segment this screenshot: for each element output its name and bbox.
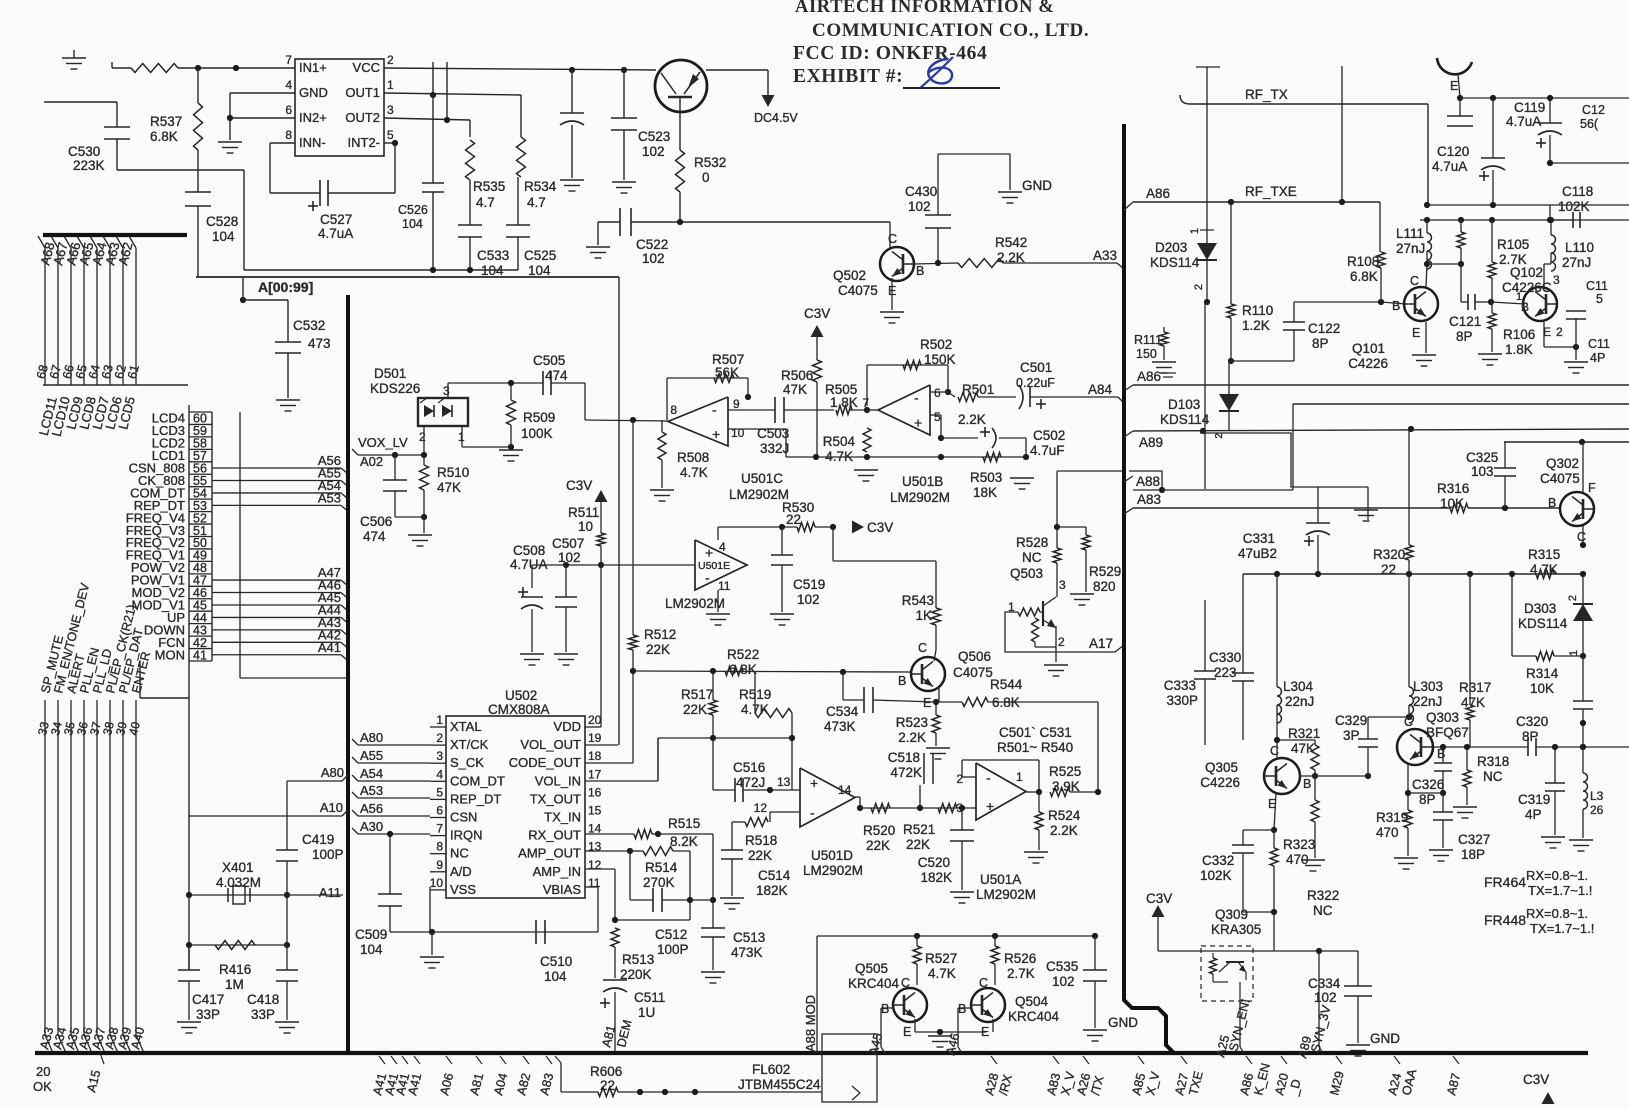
svg-text:LM2902M: LM2902M — [665, 596, 725, 611]
svg-text:R508: R508 — [677, 450, 709, 465]
svg-text:INN-: INN- — [299, 135, 326, 150]
svg-text:9: 9 — [733, 397, 740, 411]
svg-text:U501B: U501B — [902, 474, 943, 489]
svg-text:4.7K: 4.7K — [928, 966, 956, 981]
svg-text:6.8K: 6.8K — [1350, 269, 1378, 284]
svg-text:A53: A53 — [318, 490, 341, 505]
svg-text:14: 14 — [838, 783, 852, 797]
svg-text:8P: 8P — [1522, 729, 1539, 744]
svg-text:4.7: 4.7 — [527, 195, 546, 210]
svg-text:19: 19 — [588, 731, 602, 745]
svg-text:C: C — [901, 976, 910, 990]
svg-text:KDS114: KDS114 — [1518, 616, 1568, 631]
svg-text:4.7K: 4.7K — [680, 465, 708, 480]
svg-text:102K: 102K — [1558, 199, 1590, 214]
svg-text:12: 12 — [754, 801, 768, 815]
svg-text:8: 8 — [436, 840, 443, 854]
svg-text:100P: 100P — [657, 942, 689, 957]
svg-text:102: 102 — [642, 251, 665, 266]
svg-text:1: 1 — [436, 713, 443, 727]
svg-text:C120: C120 — [1437, 144, 1469, 159]
svg-text:102: 102 — [558, 550, 581, 565]
svg-text:U501D: U501D — [811, 848, 853, 863]
svg-text:A53: A53 — [360, 783, 383, 798]
svg-text:470: 470 — [1286, 852, 1309, 867]
svg-text:474: 474 — [545, 368, 568, 383]
svg-text:4.7K: 4.7K — [825, 449, 853, 464]
svg-text:C3V: C3V — [1146, 891, 1172, 906]
svg-text:R529: R529 — [1089, 564, 1121, 579]
svg-text:C3V: C3V — [566, 478, 592, 493]
svg-text:A89: A89 — [1139, 435, 1163, 450]
svg-text:E: E — [1450, 79, 1458, 93]
svg-text:RX_OUT: RX_OUT — [528, 828, 581, 843]
svg-text:16: 16 — [588, 785, 602, 799]
svg-text:C: C — [1577, 530, 1586, 544]
svg-text:-: - — [810, 804, 815, 820]
svg-text:E: E — [1412, 326, 1420, 340]
svg-text:A86: A86 — [1146, 186, 1170, 201]
svg-text:C532: C532 — [293, 318, 325, 333]
svg-text:C331: C331 — [1243, 531, 1275, 546]
svg-text:C535: C535 — [1046, 959, 1078, 974]
svg-text:C520: C520 — [918, 855, 950, 870]
svg-text:Q302: Q302 — [1546, 456, 1579, 471]
svg-text:C121: C121 — [1449, 314, 1481, 329]
svg-text:R521: R521 — [903, 822, 935, 837]
svg-text:AIRTECH INFORMATION &: AIRTECH INFORMATION & — [795, 0, 1054, 17]
svg-text:C522: C522 — [636, 237, 668, 252]
svg-text:EXHIBIT #:: EXHIBIT #: — [793, 66, 903, 87]
svg-text:C530: C530 — [68, 144, 100, 159]
svg-text:C527: C527 — [320, 212, 352, 227]
svg-text:47K: 47K — [1461, 695, 1485, 710]
svg-text:22K: 22K — [906, 837, 930, 852]
svg-text:R522: R522 — [727, 647, 759, 662]
svg-text:LM2902M: LM2902M — [729, 487, 789, 502]
svg-text:D103: D103 — [1168, 397, 1200, 412]
svg-text:104: 104 — [402, 217, 423, 231]
svg-text:GND: GND — [299, 85, 328, 100]
svg-text:C11: C11 — [1586, 279, 1608, 293]
svg-text:A10: A10 — [320, 800, 343, 815]
svg-text:R528: R528 — [1016, 535, 1048, 550]
svg-text:C333: C333 — [1164, 678, 1196, 693]
svg-text:8P: 8P — [1419, 792, 1436, 807]
svg-text:10: 10 — [430, 876, 444, 890]
svg-text:C12: C12 — [1582, 103, 1605, 117]
svg-text:C513: C513 — [733, 930, 765, 945]
svg-text:C533: C533 — [477, 248, 509, 263]
svg-text:VCC: VCC — [353, 60, 380, 75]
svg-text:R504: R504 — [823, 434, 856, 449]
svg-text:103: 103 — [1471, 464, 1494, 479]
svg-text:C514: C514 — [758, 868, 791, 883]
svg-text:A02: A02 — [360, 454, 383, 469]
svg-text:102: 102 — [797, 592, 820, 607]
svg-text:R315: R315 — [1528, 547, 1560, 562]
svg-text:-: - — [986, 769, 991, 785]
svg-text:A80: A80 — [360, 730, 383, 745]
svg-text:C512: C512 — [655, 927, 687, 942]
svg-text:VOX_LV: VOX_LV — [358, 435, 408, 450]
svg-text:Q502: Q502 — [833, 268, 866, 283]
svg-text:REP_DT: REP_DT — [450, 791, 501, 806]
svg-text:C519: C519 — [793, 577, 825, 592]
svg-text:BFQ67: BFQ67 — [1426, 725, 1469, 740]
svg-text:R535: R535 — [473, 179, 505, 194]
svg-text:3P: 3P — [1343, 728, 1360, 743]
svg-text:C327: C327 — [1458, 832, 1490, 847]
svg-text:L304: L304 — [1283, 679, 1314, 694]
svg-text:C501` C531: C501` C531 — [999, 725, 1072, 740]
svg-text:COM_DT: COM_DT — [450, 773, 505, 788]
svg-text:47K: 47K — [437, 480, 461, 495]
svg-text:OK: OK — [33, 1079, 52, 1094]
svg-text:47uB2: 47uB2 — [1238, 546, 1277, 561]
svg-text:C11: C11 — [1588, 337, 1610, 351]
svg-text:KDS226: KDS226 — [370, 381, 420, 396]
svg-text:R534: R534 — [524, 179, 557, 194]
svg-text:4.032M: 4.032M — [216, 875, 261, 890]
svg-text:A/D: A/D — [450, 864, 472, 879]
svg-text:1: 1 — [1016, 770, 1023, 784]
svg-text:R318: R318 — [1477, 754, 1509, 769]
svg-text:472J: 472J — [736, 775, 765, 790]
svg-text:OUT2: OUT2 — [345, 110, 380, 125]
svg-text:8P: 8P — [1312, 336, 1329, 351]
svg-text:F: F — [1588, 481, 1596, 495]
svg-text:3: 3 — [1059, 578, 1066, 592]
svg-text:C326: C326 — [1412, 777, 1444, 792]
svg-text:2.7K: 2.7K — [1007, 966, 1035, 981]
svg-text:C534: C534 — [826, 704, 859, 719]
svg-text:LM2902M: LM2902M — [890, 490, 950, 505]
svg-text:3: 3 — [387, 103, 394, 117]
svg-text:C526: C526 — [398, 203, 428, 217]
svg-text:C: C — [1270, 744, 1279, 758]
svg-text:470: 470 — [1376, 825, 1399, 840]
svg-text:B: B — [916, 264, 924, 278]
svg-text:GND: GND — [1370, 1031, 1400, 1046]
svg-text:17: 17 — [588, 767, 602, 781]
svg-text:KDS114: KDS114 — [1150, 255, 1200, 270]
svg-text:C528: C528 — [206, 214, 238, 229]
svg-text:C525: C525 — [524, 248, 556, 263]
svg-text:U502: U502 — [505, 688, 537, 703]
svg-text:C334: C334 — [1308, 976, 1341, 991]
svg-text:104: 104 — [528, 263, 551, 278]
svg-text:C119: C119 — [1514, 100, 1545, 115]
svg-text:R322: R322 — [1307, 888, 1339, 903]
svg-text:R108: R108 — [1347, 254, 1379, 269]
svg-text:2: 2 — [387, 53, 394, 67]
svg-text:C4226: C4226 — [1348, 356, 1388, 371]
svg-text:D501: D501 — [374, 366, 406, 381]
svg-text:5: 5 — [934, 410, 941, 424]
svg-text:L303: L303 — [1413, 679, 1443, 694]
svg-text:27nJ: 27nJ — [1562, 255, 1591, 270]
svg-text:3: 3 — [436, 749, 443, 763]
svg-text:Q505: Q505 — [855, 961, 888, 976]
svg-text:TX=1.7~1.!: TX=1.7~1.! — [1530, 921, 1594, 936]
svg-text:5: 5 — [1596, 292, 1603, 306]
svg-text:Q102: Q102 — [1510, 265, 1543, 280]
svg-text:COMMUNICATION CO., LTD.: COMMUNICATION CO., LTD. — [812, 20, 1089, 41]
svg-text:R511: R511 — [568, 505, 599, 520]
svg-text:26: 26 — [1590, 803, 1604, 817]
svg-text:FR464: FR464 — [1484, 874, 1526, 890]
svg-text:C508: C508 — [513, 543, 545, 558]
svg-text:C501: C501 — [1020, 360, 1052, 375]
svg-text:22K: 22K — [866, 838, 890, 853]
svg-text:B: B — [881, 1002, 889, 1016]
svg-text:XTAL: XTAL — [450, 719, 482, 734]
svg-text:1U: 1U — [638, 1005, 655, 1020]
svg-text:0.22uF: 0.22uF — [1016, 376, 1055, 390]
svg-text:10K: 10K — [1440, 496, 1464, 511]
svg-text:B: B — [1548, 496, 1556, 510]
svg-text:104: 104 — [212, 229, 235, 244]
svg-text:+: + — [986, 798, 994, 814]
svg-text:102: 102 — [642, 144, 665, 159]
svg-text:C330: C330 — [1209, 650, 1241, 665]
svg-text:C118: C118 — [1562, 184, 1593, 199]
svg-text:104: 104 — [360, 942, 383, 957]
svg-text:GND: GND — [1108, 1015, 1138, 1030]
svg-text:+: + — [914, 415, 922, 431]
svg-text:9: 9 — [436, 858, 443, 872]
svg-text:4.7: 4.7 — [476, 195, 495, 210]
svg-text:R606: R606 — [590, 1064, 622, 1079]
svg-text:R106: R106 — [1503, 327, 1535, 342]
svg-text:330P: 330P — [1166, 693, 1198, 708]
svg-text:18P: 18P — [1461, 847, 1485, 862]
svg-text:R502: R502 — [920, 337, 952, 352]
svg-text:R519: R519 — [739, 687, 771, 702]
svg-text:6.8K: 6.8K — [992, 695, 1020, 710]
svg-text:C3V: C3V — [1523, 1072, 1549, 1087]
svg-text:12: 12 — [588, 858, 602, 872]
svg-text:A88 MOD: A88 MOD — [803, 995, 818, 1052]
svg-text:R518: R518 — [745, 833, 777, 848]
svg-text:S_CK: S_CK — [450, 755, 484, 770]
svg-text:4.7uA: 4.7uA — [318, 226, 353, 241]
svg-text:R509: R509 — [523, 410, 555, 425]
svg-text:E: E — [903, 1025, 911, 1039]
svg-text:4P: 4P — [1590, 351, 1605, 365]
svg-text:820: 820 — [1093, 579, 1116, 594]
svg-text:R544: R544 — [990, 677, 1023, 692]
svg-text:A54: A54 — [360, 766, 383, 781]
svg-text:A80: A80 — [321, 765, 344, 780]
svg-text:6: 6 — [934, 386, 941, 400]
svg-text:A11: A11 — [319, 885, 341, 900]
svg-text:C507: C507 — [552, 536, 584, 551]
svg-text:3.9K: 3.9K — [1052, 779, 1080, 794]
svg-text:Q506: Q506 — [958, 649, 991, 664]
svg-text:OUT1: OUT1 — [345, 85, 380, 100]
svg-text:A41: A41 — [318, 640, 341, 655]
svg-text:IRQN: IRQN — [450, 828, 483, 843]
svg-text:10: 10 — [731, 426, 745, 440]
svg-text:L110: L110 — [1565, 240, 1594, 255]
svg-text:C419: C419 — [302, 832, 334, 847]
svg-text:+: + — [705, 545, 713, 561]
svg-text:R526: R526 — [1004, 951, 1036, 966]
svg-text:C502: C502 — [1033, 428, 1065, 443]
svg-text:R510: R510 — [437, 465, 469, 480]
svg-text:8P: 8P — [1456, 329, 1473, 344]
svg-text:4.7UA: 4.7UA — [510, 557, 548, 572]
svg-text:KDS114: KDS114 — [1160, 412, 1210, 427]
svg-text:4.7uF: 4.7uF — [1030, 443, 1065, 458]
svg-text:2.2K: 2.2K — [958, 412, 986, 427]
svg-text:VOL_IN: VOL_IN — [535, 773, 581, 788]
svg-text:C510: C510 — [540, 954, 572, 969]
svg-text:4: 4 — [719, 540, 726, 554]
svg-text:RX=0.8~1.: RX=0.8~1. — [1526, 906, 1588, 921]
svg-text:2: 2 — [1556, 325, 1563, 339]
svg-text:B: B — [1521, 300, 1529, 314]
svg-text:KRC404: KRC404 — [1008, 1009, 1060, 1024]
svg-text:A86: A86 — [1137, 369, 1161, 384]
svg-text:TX_OUT: TX_OUT — [530, 791, 581, 806]
svg-text:1: 1 — [387, 78, 394, 92]
svg-text:A33: A33 — [1093, 248, 1117, 263]
svg-text:CMX808A: CMX808A — [488, 702, 550, 717]
svg-text:332J: 332J — [760, 441, 789, 456]
svg-text:C417: C417 — [192, 992, 224, 1007]
svg-text:22K: 22K — [748, 848, 772, 863]
svg-text:R503: R503 — [970, 470, 1002, 485]
svg-text:1: 1 — [1568, 650, 1580, 656]
svg-text:102: 102 — [1052, 974, 1075, 989]
svg-text:6: 6 — [285, 103, 292, 117]
svg-text:A[00:99]: A[00:99] — [258, 279, 313, 295]
svg-text:B: B — [958, 1002, 966, 1016]
svg-text:27nJ: 27nJ — [1396, 241, 1425, 256]
svg-text:Q101: Q101 — [1352, 341, 1385, 356]
svg-text:R514: R514 — [645, 860, 678, 875]
svg-text:CODE_OUT: CODE_OUT — [509, 755, 581, 770]
svg-text:Q305: Q305 — [1205, 760, 1238, 775]
svg-text:47K: 47K — [783, 382, 807, 397]
svg-text:E: E — [923, 696, 931, 710]
svg-text:C329: C329 — [1335, 713, 1367, 728]
svg-text:NC: NC — [450, 846, 469, 861]
svg-text:C430: C430 — [905, 184, 937, 199]
svg-text:1.8K: 1.8K — [830, 395, 858, 410]
svg-text:R501~ R540: R501~ R540 — [997, 740, 1073, 755]
svg-text:270K: 270K — [643, 875, 675, 890]
svg-text:C3V: C3V — [867, 520, 893, 535]
svg-text:2: 2 — [1058, 635, 1065, 649]
svg-text:Q303: Q303 — [1426, 710, 1459, 725]
svg-text:C122: C122 — [1308, 321, 1340, 336]
svg-text:R314: R314 — [1526, 666, 1559, 681]
svg-text:4: 4 — [436, 767, 443, 781]
svg-text:R532: R532 — [694, 155, 726, 170]
svg-text:C: C — [979, 976, 988, 990]
svg-text:472K: 472K — [890, 765, 922, 780]
svg-text:104: 104 — [544, 969, 567, 984]
svg-text:2.2K: 2.2K — [997, 250, 1025, 265]
svg-text:22: 22 — [1381, 562, 1396, 577]
svg-text:22nJ: 22nJ — [1285, 694, 1314, 709]
svg-text:41: 41 — [193, 648, 207, 662]
svg-text:C4075: C4075 — [838, 283, 878, 298]
svg-text:C509: C509 — [355, 927, 387, 942]
svg-text:473: 473 — [308, 336, 331, 351]
svg-text:R316: R316 — [1437, 481, 1469, 496]
svg-text:3: 3 — [1553, 273, 1560, 287]
svg-text:4P: 4P — [1525, 807, 1542, 822]
svg-text:IN2+: IN2+ — [299, 110, 327, 125]
svg-text:A56: A56 — [360, 801, 383, 816]
svg-text:C4075: C4075 — [953, 665, 993, 680]
svg-text:150K: 150K — [924, 352, 956, 367]
svg-text:TX=1.7~1.!: TX=1.7~1.! — [1528, 883, 1592, 898]
svg-text:C: C — [1404, 715, 1413, 729]
svg-text:C518: C518 — [888, 750, 920, 765]
svg-text:33P: 33P — [251, 1007, 275, 1022]
svg-text:102: 102 — [1314, 990, 1337, 1005]
svg-text:150: 150 — [1136, 347, 1157, 361]
svg-text:NC: NC — [1022, 550, 1042, 565]
svg-text:10K: 10K — [1530, 681, 1554, 696]
svg-text:0: 0 — [702, 170, 710, 185]
svg-text:22K: 22K — [683, 702, 707, 717]
svg-text:18K: 18K — [973, 485, 997, 500]
svg-text:56(: 56( — [1580, 117, 1599, 131]
svg-text:XT/CK: XT/CK — [450, 737, 489, 752]
svg-text:R105: R105 — [1497, 237, 1529, 252]
svg-text:R320: R320 — [1373, 547, 1405, 562]
svg-text:LM2902M: LM2902M — [976, 887, 1036, 902]
svg-text:100P: 100P — [312, 847, 344, 862]
svg-text:FL602: FL602 — [752, 1062, 790, 1077]
svg-text:1M: 1M — [225, 977, 244, 992]
svg-text:4.7K: 4.7K — [1530, 562, 1558, 577]
svg-text:NC: NC — [1483, 769, 1503, 784]
svg-text:4: 4 — [285, 78, 292, 92]
svg-text:7: 7 — [436, 822, 443, 836]
svg-text:C4075: C4075 — [1540, 471, 1580, 486]
svg-text:JTBM455C24: JTBM455C24 — [738, 1077, 821, 1092]
svg-text:1.8K: 1.8K — [1505, 342, 1533, 357]
svg-text:10: 10 — [578, 519, 593, 534]
svg-text:22: 22 — [786, 512, 801, 527]
svg-text:56K: 56K — [715, 365, 739, 380]
svg-text:C3V: C3V — [804, 306, 830, 321]
svg-text:473K: 473K — [731, 945, 763, 960]
svg-text:33P: 33P — [196, 1007, 220, 1022]
svg-text:474: 474 — [363, 529, 386, 544]
svg-text:GND: GND — [1022, 178, 1052, 193]
svg-text:R527: R527 — [925, 951, 957, 966]
svg-text:-: - — [914, 390, 919, 406]
svg-text:+: + — [810, 775, 818, 791]
svg-text:C511: C511 — [634, 990, 665, 1005]
svg-text:C: C — [918, 641, 927, 655]
svg-text:13: 13 — [777, 775, 791, 789]
svg-text:4.7K: 4.7K — [741, 702, 769, 717]
svg-text:6: 6 — [436, 804, 443, 818]
svg-text:R523: R523 — [896, 715, 928, 730]
svg-text:C320: C320 — [1516, 714, 1548, 729]
svg-text:TX_IN: TX_IN — [544, 810, 581, 825]
